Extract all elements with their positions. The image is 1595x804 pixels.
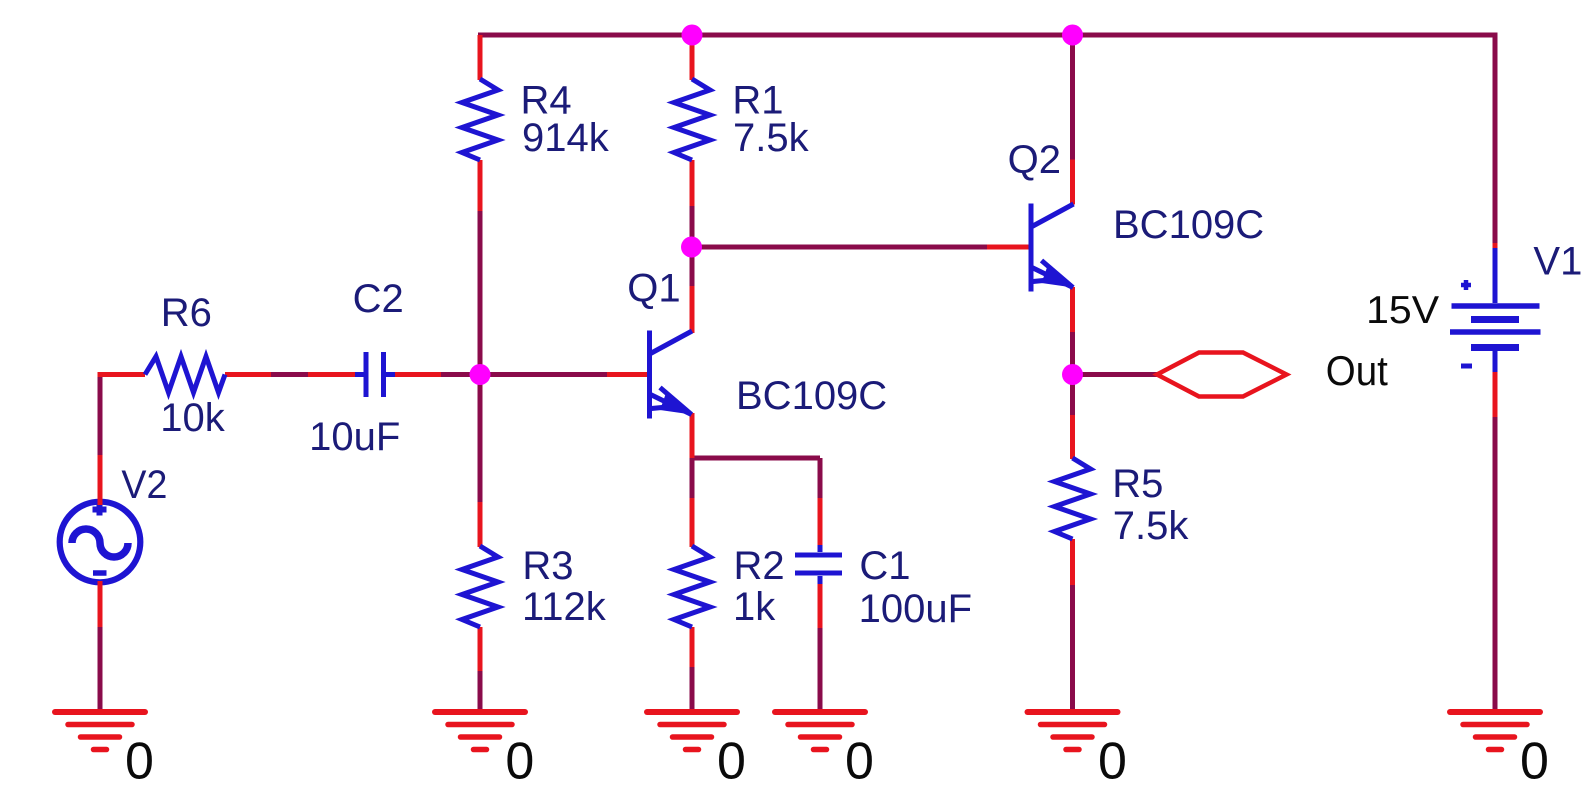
pin R1 bottom <box>690 160 695 206</box>
pin V2 top overlap <box>98 455 103 505</box>
resistor R1 <box>674 79 710 160</box>
svg-text:100uF: 100uF <box>859 587 972 631</box>
svg-text:Q1: Q1 <box>627 267 680 311</box>
pin R4 bottom <box>478 160 483 211</box>
svg-text:BC109C: BC109C <box>1113 203 1264 247</box>
pin C1 top <box>818 498 823 547</box>
wire node to Q1 collector pin <box>690 250 695 287</box>
battery V1 <box>1450 248 1541 372</box>
pin R4 top <box>478 35 483 80</box>
wire R2 to ground <box>690 667 695 712</box>
svg-text:112k: 112k <box>522 585 607 629</box>
wire top rail from R4 to V1 <box>478 33 1498 38</box>
ground C1 <box>775 712 865 750</box>
pin V1 bottom <box>1493 372 1498 417</box>
wire V2 to ground <box>98 627 103 712</box>
transistor Q2 <box>1031 204 1074 292</box>
wire C2 node down to R3 <box>478 377 483 503</box>
svg-text:R5: R5 <box>1112 462 1163 506</box>
node Q1 collector / Q2 base <box>681 237 702 258</box>
svg-text:15V: 15V <box>1366 289 1439 332</box>
svg-text:10uF: 10uF <box>309 415 400 459</box>
svg-text:C1: C1 <box>859 544 910 588</box>
wire V1 branch top <box>1493 35 1498 244</box>
pin C2 left <box>308 372 357 377</box>
resistor R6 <box>145 357 225 393</box>
wire out node to R5 <box>1070 378 1075 415</box>
ground R2 <box>647 712 737 750</box>
svg-text:0: 0 <box>1098 732 1127 790</box>
wire Q2 emitter to out node <box>1070 332 1075 372</box>
resistor R2 <box>674 546 710 627</box>
pin R6 right <box>225 372 271 377</box>
wire Q1 collector node to Q2 base <box>692 245 988 250</box>
pin V2 bottom overlap <box>98 581 103 627</box>
wire R3 to ground <box>478 671 483 712</box>
wire Q1 emitter horizontal to C1 <box>692 456 820 461</box>
node top rail Q2 <box>1062 25 1083 46</box>
node C2 / R4 / base <box>470 364 491 385</box>
pin R5 bottom <box>1070 539 1075 585</box>
ground V1 <box>1450 712 1540 750</box>
pin C2 right <box>393 372 441 377</box>
pin Q1 collector <box>690 286 695 333</box>
pin Q2 collector <box>1070 160 1075 205</box>
pin R2 bottom <box>690 627 695 667</box>
svg-text:V2: V2 <box>121 463 167 507</box>
svg-text:10k: 10k <box>160 396 225 440</box>
resistor R5 <box>1055 458 1091 539</box>
svg-text:0: 0 <box>505 732 534 790</box>
ground V2 <box>55 712 145 750</box>
svg-text:914k: 914k <box>522 116 610 160</box>
svg-text:C2: C2 <box>353 277 404 321</box>
svg-text:Out: Out <box>1326 347 1388 394</box>
wire R6 to C2 <box>271 372 308 377</box>
resistor R3 <box>462 546 498 627</box>
wire down to C1 <box>818 458 823 498</box>
wire R5 to ground <box>1070 585 1075 712</box>
capacitor C2 <box>355 352 395 397</box>
wire R4 bottom to C2 node <box>478 211 483 372</box>
pin R1 top <box>690 37 695 80</box>
pin Q2 emitter <box>1070 287 1075 332</box>
wire emitter node down to R2 <box>690 458 695 498</box>
svg-text:BC109C: BC109C <box>736 374 887 418</box>
wire C1 to ground <box>818 628 823 712</box>
svg-text:0: 0 <box>717 732 746 790</box>
svg-text:0: 0 <box>845 732 874 790</box>
ground R5 <box>1028 712 1118 750</box>
svg-text:1k: 1k <box>733 585 776 629</box>
svg-text:0: 0 <box>1520 732 1549 790</box>
pin R2 top <box>690 498 695 547</box>
node out <box>1062 364 1083 385</box>
wire R6 corner down to V2 <box>98 375 103 456</box>
svg-text:7.5k: 7.5k <box>1113 504 1190 548</box>
AC source V2 <box>60 502 141 583</box>
pin R5 top <box>1070 415 1075 459</box>
svg-text:0: 0 <box>125 732 154 790</box>
svg-text:R3: R3 <box>522 544 573 588</box>
capacitor C1 <box>795 545 842 584</box>
svg-text:7.5k: 7.5k <box>733 116 810 160</box>
pin R3 top <box>478 502 483 547</box>
pin V1 top <box>1493 243 1498 250</box>
wire out node to hexagon <box>1073 372 1158 377</box>
pin Q1 emitter <box>690 413 695 458</box>
svg-text:Q2: Q2 <box>1008 138 1061 182</box>
wire V1 branch bottom <box>1493 417 1498 712</box>
pin Q2 base <box>987 245 1033 250</box>
svg-text:R2: R2 <box>734 544 785 588</box>
ground R3 <box>435 712 525 750</box>
resistor R4 <box>462 79 498 160</box>
out port hexagon <box>1157 353 1287 397</box>
pin R3 bottom <box>478 627 483 671</box>
wire Q2 collector branch from rail <box>1070 35 1075 160</box>
pin Q1 base <box>607 372 651 377</box>
wire R1 bottom to node <box>690 206 695 250</box>
transistor Q1 <box>650 331 693 419</box>
pin C1 bottom <box>818 582 823 628</box>
wire C2 to Q1 base <box>440 372 607 377</box>
pin R6 left <box>98 372 146 377</box>
svg-text:R6: R6 <box>161 291 212 335</box>
svg-text:V1: V1 <box>1533 240 1582 284</box>
node top rail R1 <box>682 25 703 46</box>
